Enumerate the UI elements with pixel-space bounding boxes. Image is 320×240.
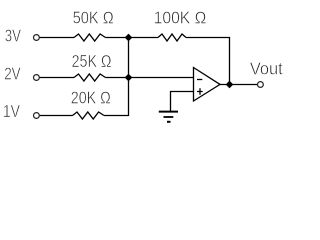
wire node A to R4 xyxy=(129,37,159,39)
op-amp inverting pin minus sign xyxy=(197,79,202,81)
terminal 2V input xyxy=(34,75,40,81)
wire 3V terminal to R1 xyxy=(40,37,74,39)
wire R2 to op-amp inverting input xyxy=(106,77,194,79)
wire R3 to summing column xyxy=(104,115,129,117)
svg-text:1V: 1V xyxy=(3,101,20,121)
terminal 1V input xyxy=(34,113,40,119)
ground symbol xyxy=(159,112,178,122)
svg-text:20K Ω: 20K Ω xyxy=(71,87,111,107)
op-amp U1 triangle xyxy=(194,68,221,102)
wire R4 to output node feedback corner xyxy=(186,38,230,85)
terminal 3V input xyxy=(34,35,40,41)
wire non-inverting input to ground xyxy=(171,92,194,112)
svg-text:25K Ω: 25K Ω xyxy=(72,51,112,71)
resistor R3 20K xyxy=(73,112,105,119)
terminal Vout xyxy=(258,82,264,88)
svg-text:100K Ω: 100K Ω xyxy=(154,8,207,28)
resistor R2 25K xyxy=(74,74,106,81)
svg-text:Vout: Vout xyxy=(250,59,283,79)
svg-text:2V: 2V xyxy=(4,64,21,84)
wire 2V terminal to R2 xyxy=(40,77,74,79)
wire op-amp output xyxy=(220,84,258,86)
resistor R4 100K feedback xyxy=(158,34,186,41)
resistor R1 50K xyxy=(74,34,106,41)
svg-text:3V: 3V xyxy=(5,25,21,45)
wire R1 to node A xyxy=(106,37,129,39)
wire 1V terminal to R3 xyxy=(40,115,73,117)
node B junction dot xyxy=(125,74,132,81)
node A junction dot xyxy=(125,34,132,41)
wire summing node vertical column xyxy=(128,38,130,116)
op-amp non-inverting pin plus sign xyxy=(197,88,203,94)
node C output junction dot xyxy=(226,81,233,88)
svg-text:50K Ω: 50K Ω xyxy=(73,7,114,27)
